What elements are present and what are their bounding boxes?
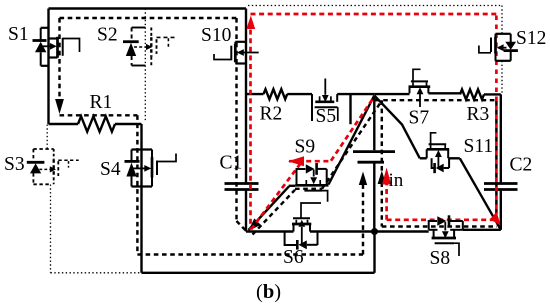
wire: right column lower (C2 to corner): [500, 190, 502, 230]
wire: R2 to S5: [287, 93, 312, 95]
resistor R1: [78, 116, 115, 131]
transistor S5: [312, 79, 338, 122]
transistor S8: [429, 215, 463, 256]
wire: dashed through S8 channel row: [382, 225, 497, 227]
transistor S9: [295, 163, 328, 202]
svg-text:S10: S10: [201, 25, 231, 46]
svg-text:C2: C2: [510, 155, 533, 176]
wire: right column upper (to C2): [500, 94, 502, 183]
transistor S2 (dashed): [132, 28, 175, 66]
svg-text:S11: S11: [464, 136, 494, 157]
transistor S12: [479, 34, 518, 61]
wire: S5 to apex: [337, 93, 374, 95]
arrowhead: dashed down into R1 row: [55, 99, 64, 114]
wire: dotted drop to R1 junction: [144, 9, 146, 122]
wire: dashed right column drop: [495, 101, 498, 218]
arrowhead: dashed up into battery minus (right): [378, 171, 386, 185]
wire: dashed bottom rail: [137, 253, 363, 255]
wire: dotted S12 to R3 corner: [501, 61, 503, 94]
wire: solid diagonal S9 to apex: [329, 96, 375, 185]
wire: dashed drop to S8 level: [381, 100, 383, 226]
wire: S1 left column: [47, 9, 49, 125]
svg-text:S5: S5: [316, 106, 337, 127]
wire: S9 left lead: [289, 185, 296, 187]
svg-text:(b): (b): [256, 281, 281, 303]
wire: S11 left lead: [420, 157, 427, 159]
wire: dashed top rail: [60, 17, 237, 19]
wire: solid diagonal apex to S11: [374, 96, 420, 159]
arrowhead: solid diagonal into node: [248, 218, 260, 230]
resistor R2: [264, 89, 288, 99]
wire: dotted below S3: [50, 185, 52, 273]
wire: node to S6 bottom wire: [246, 230, 294, 232]
wire: red through S8 diode: [387, 218, 495, 221]
wire: dashed S4 companion drop: [136, 115, 138, 254]
transistor S3 (dashed/dotted): [33, 149, 78, 184]
dotted (inactive) net: [47, 6, 502, 273]
wire: red left riser: [249, 21, 252, 230]
wire: hanging stub near apex: [349, 94, 351, 124]
arrowhead: red down into bottom-right corner: [490, 212, 501, 226]
svg-text:C1: C1: [220, 153, 243, 174]
wire: dashed under S9: [295, 188, 322, 190]
arrowhead: red up at top-left: [246, 16, 255, 30]
wire: dotted bottom rail: [51, 272, 142, 274]
wire: battery return riser: [373, 232, 375, 273]
battery Vin bottom lead: [373, 163, 375, 231]
transistor S4: [125, 150, 177, 187]
wire: dashed horizontal apex to right column: [375, 99, 496, 101]
wire: red diagonal node to S9: [251, 162, 302, 230]
svg-text:S9: S9: [295, 137, 316, 158]
transistor S6: [285, 203, 321, 250]
red dashed loop (charge path): [251, 14, 497, 230]
wire: apex to S7: [374, 93, 409, 95]
wire: top solid rail: [49, 7, 247, 10]
svg-text:R2: R2: [260, 104, 283, 125]
arrowhead: red left into S9 diode: [288, 156, 304, 166]
wire: R2 feed: [246, 93, 264, 95]
svg-text:S1: S1: [8, 24, 29, 45]
svg-text:R1: R1: [90, 92, 113, 113]
wire: bottom solid rail: [142, 272, 375, 274]
svg-text:S8: S8: [430, 248, 451, 269]
capacitor C1: [225, 184, 259, 190]
wire: R1 feed from S1 corner: [49, 123, 79, 125]
svg-text:S6: S6: [283, 247, 304, 268]
svg-text:S2: S2: [97, 25, 118, 46]
wire: C1 lower lead to node: [245, 190, 247, 232]
svg-text:S4: S4: [100, 159, 121, 180]
wire: dashed diagonal S9 to apex: [322, 100, 382, 188]
wire: solid diagonal node to S9: [249, 186, 290, 230]
battery Vin plates: [353, 150, 395, 153]
wire: S11 right lead: [448, 157, 460, 159]
wire: S6 to junction dot: [310, 230, 429, 232]
wire: red right column drop: [495, 14, 498, 214]
battery Vin top lead: [373, 96, 375, 151]
svg-text:R3: R3: [467, 104, 490, 125]
svg-text:S12: S12: [516, 28, 546, 49]
svg-text:S3: S3: [4, 154, 25, 175]
svg-text:in: in: [389, 170, 404, 191]
wire: dashed riser to battery minus: [362, 183, 364, 255]
wire: S7 to R3: [428, 93, 460, 94]
wire: S8 right to bottom-right corner: [463, 229, 501, 231]
wire: solid diagonal S11 to bottom-right corner: [460, 158, 501, 230]
wire: dashed diagonal node to S9: [253, 190, 296, 235]
wire: red diagonal S9 to apex: [331, 97, 374, 161]
capacitor C2: [484, 184, 518, 190]
resistor R3: [460, 89, 484, 99]
wire: S10/C1 column: [245, 9, 247, 184]
svg-text:S7: S7: [409, 108, 430, 129]
arrowhead: dashed up into battery minus (left): [359, 172, 367, 186]
wire: R3 to right column corner: [484, 93, 501, 95]
wire: R1 to S4 corner: [115, 123, 142, 125]
wire: dotted S1 corner to S3: [46, 125, 48, 150]
wire: dashed right drop through S10/C1: [235, 18, 237, 221]
wire: dotted top rail: [248, 5, 502, 7]
transistor S11: [427, 133, 449, 173]
transistor S1: [33, 28, 80, 66]
wire: red through S9 diode: [289, 160, 331, 163]
black dashed loop (state path): [60, 18, 498, 255]
transistor S7: [409, 69, 431, 107]
wire: dashed horizontal under R1 label: [60, 114, 138, 116]
arrowhead: red up into battery minus: [382, 168, 391, 185]
wire: red riser to battery minus: [385, 181, 388, 220]
wire: dashed left drop through S1: [58, 18, 60, 99]
wire: red top rail: [251, 13, 497, 16]
transistor S10: [214, 42, 259, 64]
wire: dotted drop to S12: [501, 6, 503, 34]
junction dot at battery return: [371, 228, 378, 235]
wire: S4 column: [140, 124, 142, 273]
